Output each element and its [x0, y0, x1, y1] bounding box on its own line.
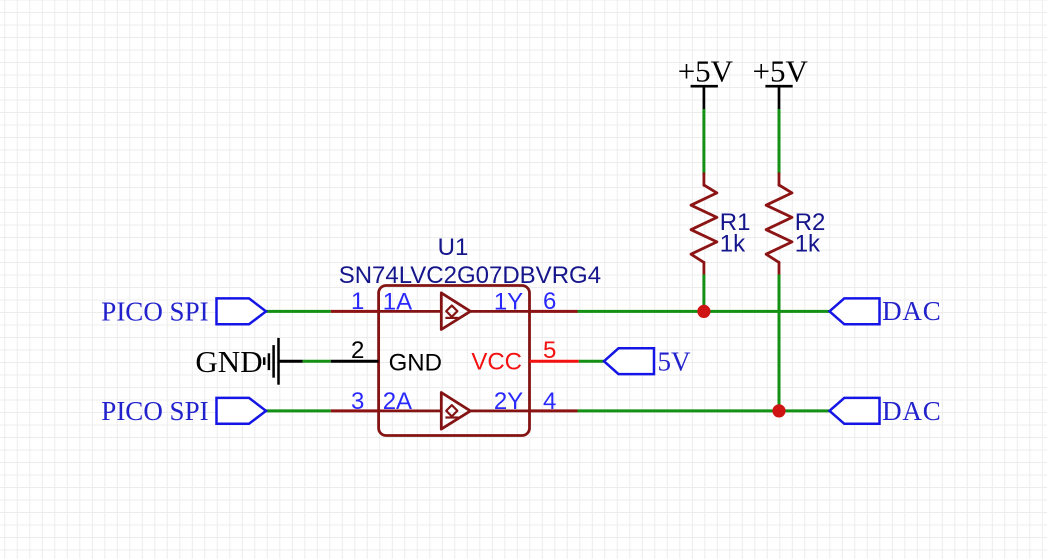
label flag DAC row3 [830, 398, 880, 424]
svg-text:3: 3 [351, 388, 364, 415]
label flag PICO SPI row3 [217, 398, 267, 424]
wire pin 6 to DAC flag 1 [578, 310, 830, 313]
IC U1 body [379, 286, 530, 436]
buffer gate 2 [441, 393, 470, 430]
gate2 output line inside body [471, 409, 530, 412]
wire PICO SPI to pin 3 [266, 409, 331, 412]
svg-text:+5V: +5V [753, 54, 809, 89]
svg-text:4: 4 [543, 388, 556, 415]
svg-text:6: 6 [543, 288, 556, 315]
svg-text:SN74LVC2G07DBVRG4: SN74LVC2G07DBVRG4 [339, 262, 601, 289]
svg-text:2Y: 2Y [494, 388, 523, 415]
svg-text:PICO SPI: PICO SPI [101, 396, 208, 426]
junction at R2 / DAC2 [772, 404, 785, 417]
junction at R1 / DAC1 [697, 305, 710, 318]
svg-text:1k: 1k [795, 231, 821, 258]
wire +5V to R1 [702, 109, 705, 174]
wire PICO SPI to pin 1 [266, 310, 331, 313]
svg-text:+5V: +5V [678, 54, 734, 89]
svg-text:PICO SPI: PICO SPI [101, 296, 208, 326]
buffer gate 1 [441, 293, 470, 330]
wire pin 4 to DAC flag 2 [578, 409, 830, 412]
wire ground to pin 2 [303, 360, 331, 363]
label flag 5V [604, 348, 654, 374]
svg-text:U1: U1 [438, 234, 469, 261]
ground symbol [264, 338, 303, 385]
svg-text:1A: 1A [383, 288, 412, 315]
gate2 input line inside body [379, 409, 442, 412]
pin 6 stub [530, 310, 578, 313]
svg-text:VCC: VCC [471, 349, 522, 376]
wire R2 to net DAC2 [778, 275, 781, 411]
wire R1 to net DAC1 [702, 275, 705, 312]
resistor R2 [766, 174, 792, 275]
svg-text:2: 2 [351, 337, 364, 364]
svg-text:DAC: DAC [882, 396, 941, 426]
label flag PICO SPI row1 [217, 298, 267, 324]
power +5V symbol PWR1 [691, 86, 718, 110]
pin 2 stub [331, 360, 379, 363]
wire pin 5 to 5V flag [579, 360, 604, 363]
pin 5 stub [530, 360, 579, 363]
svg-text:DAC: DAC [882, 296, 941, 326]
svg-text:GND: GND [389, 350, 442, 377]
svg-text:GND: GND [195, 344, 262, 379]
pin 1 stub [331, 310, 379, 313]
gate1 output line inside body [471, 310, 530, 313]
pin 4 stub [530, 409, 578, 412]
svg-text:1Y: 1Y [494, 288, 523, 315]
svg-text:5V: 5V [658, 346, 692, 376]
resistor R1 [691, 174, 717, 275]
svg-text:5: 5 [543, 337, 556, 364]
pin 3 stub [331, 409, 379, 412]
svg-text:2A: 2A [383, 388, 412, 415]
power +5V symbol PWR2 [765, 86, 792, 110]
svg-text:1k: 1k [720, 231, 746, 258]
label flag DAC row1 [830, 298, 880, 324]
wire +5V to R2 [778, 109, 781, 174]
gate1 input line inside body [379, 310, 442, 313]
svg-text:1: 1 [351, 288, 364, 315]
